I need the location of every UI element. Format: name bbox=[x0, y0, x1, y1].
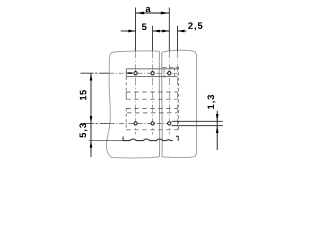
dimension a line bbox=[136, 12, 170, 14]
center line pin col 1 bbox=[135, 51, 137, 135]
contact channel row1 top line bbox=[126, 68, 177, 70]
break line right bbox=[161, 52, 163, 157]
hidden dashed square around pin A3 bbox=[164, 68, 175, 78]
contact channel row1 left end bbox=[125, 69, 127, 77]
hidden dashed line y=108.4 bbox=[126, 107, 177, 109]
label 2,5 bbox=[188, 22, 202, 30]
label 5 bbox=[142, 24, 147, 31]
dimension 1,3 arrow down bbox=[216, 114, 219, 121]
hidden dashed contour: right vertical edge bbox=[177, 67, 179, 130]
extension line pin1 top bbox=[135, 8, 137, 51]
center line pin col 2 bbox=[152, 51, 154, 135]
dimension 2,5 line right bbox=[177, 30, 186, 32]
body outline left half bbox=[106, 51, 159, 158]
label a bbox=[146, 7, 151, 12]
contact bar left of pin A1 bbox=[127, 72, 132, 74]
dimension 15/5.3 vertical line bbox=[90, 73, 92, 157]
pin hole A2 bbox=[151, 72, 154, 75]
pin hole B1 bbox=[134, 122, 137, 125]
hidden dashed line y=99.2 bbox=[126, 98, 177, 100]
dimension 2,5 arrow at margin bbox=[177, 30, 184, 33]
hidden dashed left vertical below channel bbox=[125, 77, 127, 92]
hidden dashed top edge right part bbox=[163, 66, 179, 68]
pin hole A3 bbox=[168, 72, 171, 75]
hidden dashed vertical x=126.2 lower bbox=[125, 108, 127, 130]
dimension a arrow left bbox=[136, 12, 144, 15]
pin hole B2 bbox=[151, 122, 154, 125]
contact channel row1 bottom line bbox=[126, 76, 177, 78]
extension line margin top bbox=[176, 26, 178, 51]
dimension 15 arrow up bbox=[90, 73, 93, 80]
dimension 2,5 arrow at pin3 bbox=[162, 30, 169, 33]
dimension 5 line middle bbox=[153, 30, 170, 32]
dimension a arrow right bbox=[161, 12, 169, 15]
body outline right half bbox=[162, 50, 197, 157]
break line left bbox=[158, 51, 160, 157]
label 15 bbox=[80, 90, 87, 100]
pin hole B3 bbox=[168, 122, 171, 125]
dimension 5 line left bbox=[121, 30, 136, 32]
center line pin col 3 bbox=[168, 51, 170, 135]
extension line front face bbox=[89, 139, 129, 141]
center line row1 horizontal bbox=[81, 72, 110, 74]
dimension 5 arrow at pin2 bbox=[153, 30, 160, 33]
pin hole A1 bbox=[134, 72, 137, 75]
extension line pin3 top bbox=[168, 8, 170, 51]
front face crenellated contour bbox=[123, 136, 178, 141]
tangent line top of hole bbox=[172, 120, 223, 122]
dimension 1,3 arrow up bbox=[216, 126, 219, 133]
tangent line bottom of hole bbox=[172, 125, 223, 127]
hidden dashed line y=112.9 inner top bbox=[127, 112, 178, 114]
label 5,3 bbox=[79, 123, 87, 137]
hidden dashed line y=92 bbox=[126, 91, 177, 93]
hidden dashed vertical x=126.2 box M1 bbox=[125, 92, 127, 99]
extension line pin2 top bbox=[152, 26, 154, 51]
dimension 5 arrow at pin1 bbox=[128, 30, 135, 33]
center line row2 horizontal bbox=[81, 122, 110, 124]
hidden dashed line y=129.8 bottom bbox=[126, 129, 178, 131]
dimension 15 arrow down bbox=[90, 116, 93, 123]
dimension 5,3 arrow up from below bbox=[90, 140, 93, 147]
center line right margin x=177.5 bbox=[177, 51, 179, 130]
dimension 1,3 vertical line bbox=[216, 111, 218, 150]
label 1,3 bbox=[207, 95, 215, 109]
